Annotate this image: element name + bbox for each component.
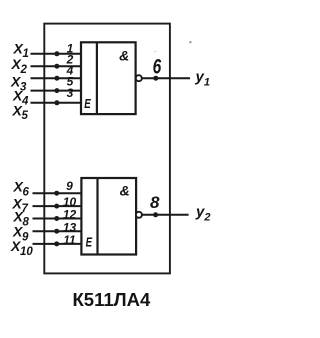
svg-text:E: E bbox=[86, 237, 93, 250]
svg-text:6: 6 bbox=[153, 54, 162, 78]
junction dot X5 bbox=[54, 100, 59, 105]
wire DD1.2 output to Y2 bbox=[142, 214, 189, 216]
svg-text:11: 11 bbox=[63, 233, 76, 247]
DD1.1 extender column divider bbox=[96, 42, 98, 114]
junction dot X9 bbox=[54, 229, 59, 234]
wire X10 input bbox=[33, 243, 82, 245]
wire X6 input bbox=[33, 192, 82, 194]
junction dot pin 6 bbox=[153, 76, 158, 81]
junction dot X10 bbox=[54, 241, 59, 246]
wire X7 input bbox=[33, 205, 82, 207]
svg-text:8: 8 bbox=[150, 193, 160, 212]
junction dot X6 bbox=[54, 191, 59, 196]
svg-text:&: & bbox=[120, 182, 130, 198]
NAND gate DD1.1 body bbox=[81, 42, 136, 114]
wire DD1.1 output to Y1 bbox=[142, 77, 190, 79]
wire X9 input bbox=[33, 230, 82, 232]
wire X4 input bbox=[31, 90, 82, 92]
svg-text:К511ЛА4: К511ЛА4 bbox=[73, 289, 151, 310]
wire X5 input bbox=[31, 102, 82, 104]
NAND gate DD1.2 body bbox=[81, 178, 136, 255]
junction dot X8 bbox=[54, 216, 59, 221]
DD1.2 output inversion bubble bbox=[136, 212, 142, 218]
DD1.2 extender column divider bbox=[96, 178, 98, 255]
svg-text:9: 9 bbox=[66, 179, 73, 193]
junction dot X4 bbox=[54, 88, 59, 93]
svg-text:3: 3 bbox=[67, 86, 74, 100]
junction dot X2 bbox=[54, 64, 59, 69]
svg-text:&: & bbox=[119, 48, 129, 64]
scan speck bbox=[189, 41, 191, 43]
IC package outline bbox=[44, 24, 170, 274]
junction dot X7 bbox=[54, 204, 59, 209]
junction dot pin 8 bbox=[153, 212, 158, 217]
wire X3 input bbox=[31, 77, 82, 79]
wire X2 input bbox=[31, 65, 82, 67]
junction dot X3 bbox=[54, 76, 59, 81]
svg-text:E: E bbox=[84, 98, 91, 111]
scan speck 2 bbox=[155, 51, 157, 53]
junction dot X1 bbox=[54, 51, 59, 56]
DD1.1 output inversion bubble bbox=[136, 75, 142, 81]
wire X1 input bbox=[31, 53, 82, 55]
wire X8 input bbox=[33, 218, 82, 220]
